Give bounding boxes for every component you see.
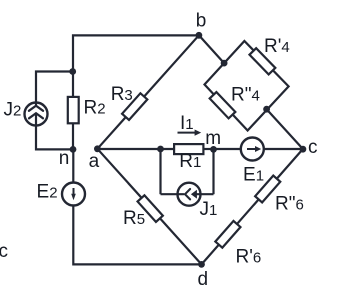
wire east junction to node c xyxy=(267,109,303,149)
wire R1 right lead to m xyxy=(205,148,214,150)
wire E2 bottom down to bottom rail xyxy=(73,205,201,265)
wire n to E2 top xyxy=(72,149,74,183)
svg-text:R1: R1 xyxy=(179,151,201,172)
wire J1 bottom branch xyxy=(161,193,214,195)
svg-text:c: c xyxy=(308,137,318,158)
resistor R''4 xyxy=(210,92,236,118)
node junction R4 east xyxy=(263,106,270,113)
svg-text:R5: R5 xyxy=(123,208,145,229)
wire a to R1 left junction xyxy=(97,148,174,150)
svg-text:n: n xyxy=(59,148,70,169)
svg-text:J1: J1 xyxy=(200,199,218,220)
resistor R2 xyxy=(68,97,79,123)
svg-text:R'6: R'6 xyxy=(236,247,262,268)
node c xyxy=(300,146,307,153)
wire b to west junction of R4 pair xyxy=(199,35,224,63)
wire J1 right vertical from m xyxy=(212,149,214,194)
svg-text:I1: I1 xyxy=(180,113,194,134)
voltage source E2 xyxy=(62,183,85,206)
resistor R1 xyxy=(174,144,203,154)
wire R2 branch lower lead to n xyxy=(72,124,74,150)
wire diagonal a to d (R5 branch) xyxy=(97,149,201,265)
wire J1 left vertical xyxy=(159,149,161,194)
svg-text:J2: J2 xyxy=(4,100,22,121)
wire J2 bottom to node n xyxy=(36,125,73,150)
node a xyxy=(94,145,101,152)
node junction R1 left xyxy=(157,146,164,153)
current source J1 xyxy=(178,183,201,206)
current source J2 xyxy=(25,103,48,126)
node b xyxy=(196,32,203,39)
svg-text:c: c xyxy=(0,241,8,262)
resistor R'6 xyxy=(215,221,240,248)
svg-text:R"6: R"6 xyxy=(275,194,304,215)
wire diagonal a to b (R3 branch) xyxy=(97,35,198,149)
node m xyxy=(210,146,217,153)
node junction top-left xyxy=(69,68,76,75)
current arrow I1 xyxy=(178,130,202,136)
wire node c to node d (R6 branch) xyxy=(202,149,303,264)
svg-text:d: d xyxy=(198,269,209,290)
node d xyxy=(198,261,205,268)
resistor R'4 xyxy=(249,48,275,74)
wire m to c through E1 xyxy=(214,148,303,150)
node n xyxy=(70,146,77,153)
voltage source E1 xyxy=(241,138,264,161)
svg-text:R"4: R"4 xyxy=(231,85,260,106)
node junction R4 west xyxy=(221,60,228,67)
wire top: b to top-left corner down to junction xyxy=(73,35,199,71)
svg-text:R'4: R'4 xyxy=(264,36,290,57)
svg-text:R3: R3 xyxy=(111,84,133,105)
resistor R5 xyxy=(138,195,163,222)
wire R2 branch upper lead xyxy=(72,72,74,98)
svg-text:m: m xyxy=(205,128,221,149)
wire J2 tap: junction left and down to J2 xyxy=(36,72,73,104)
svg-text:a: a xyxy=(89,151,100,172)
svg-text:E2: E2 xyxy=(37,182,58,203)
resistor R3 xyxy=(122,93,147,120)
wire R4 parallel loop (rotated rectangle W N E S) xyxy=(205,41,289,131)
svg-text:b: b xyxy=(196,11,207,32)
svg-text:E1: E1 xyxy=(243,165,264,186)
svg-text:R2: R2 xyxy=(84,98,106,119)
resistor R''6 xyxy=(255,176,280,203)
